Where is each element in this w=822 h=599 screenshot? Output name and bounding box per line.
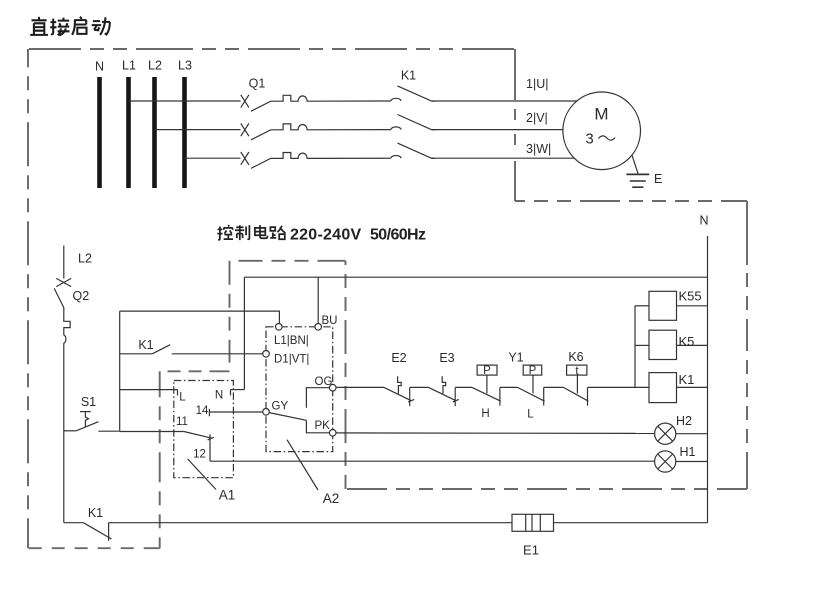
svg-text:N: N — [699, 214, 708, 228]
svg-text:K6: K6 — [568, 350, 583, 364]
contact E3 (thermal NC) — [429, 351, 459, 406]
svg-text:3: 3 — [585, 131, 593, 148]
pushbutton S1 — [64, 395, 120, 431]
breaker Q2 — [54, 278, 89, 430]
A1 terminal L — [178, 390, 187, 404]
relay coil K5 — [635, 330, 708, 359]
wire riser A1-N to top rail — [243, 277, 245, 389]
A2 terminal D1|VT| — [263, 351, 310, 366]
wire E1 to N rail — [554, 522, 708, 524]
svg-text:P: P — [529, 365, 537, 377]
svg-text:E1: E1 — [523, 543, 539, 558]
heater element E1 — [512, 514, 554, 557]
A1 terminal N — [215, 390, 245, 402]
wire N rail vertical — [707, 236, 709, 523]
svg-text:L1: L1 — [122, 59, 136, 73]
wire Y1L-K6 — [544, 386, 564, 388]
node L2 (control feed) — [64, 246, 92, 279]
svg-text:K1: K1 — [88, 506, 103, 520]
contact E2 (thermal NC) — [384, 351, 414, 406]
A1 contact 11-12 — [176, 416, 214, 461]
svg-text:S1: S1 — [81, 395, 96, 409]
ground E — [626, 155, 662, 188]
A2 terminal OG — [315, 376, 337, 391]
svg-text:H: H — [481, 408, 489, 420]
svg-text:Q1: Q1 — [249, 77, 266, 91]
svg-text:11: 11 — [176, 416, 188, 428]
contact K1 (heater circuit) — [64, 506, 112, 541]
svg-text:K55: K55 — [679, 289, 702, 304]
wire coil bus vertical — [634, 306, 636, 388]
wire L1 to Q1 pole1 — [129, 100, 241, 102]
svg-text:14: 14 — [196, 405, 209, 417]
svg-text:E3: E3 — [439, 351, 454, 365]
busbar L2 — [148, 59, 162, 189]
circuit breaker Q1 pole3 — [241, 152, 391, 168]
A2 terminal PK — [315, 420, 337, 436]
A2 internal changeover contact — [269, 388, 329, 433]
label A1 with leader — [188, 459, 236, 503]
title 直接启动 — [30, 17, 110, 36]
wire BU riser — [317, 277, 319, 323]
svg-text:N: N — [95, 60, 104, 74]
wire E3-Y1H — [455, 386, 472, 388]
svg-text:L: L — [527, 409, 534, 421]
A2 terminal L1|BN| — [274, 324, 309, 348]
relay coil K1 — [649, 372, 708, 403]
wire A1 12 to lamp H1 — [210, 460, 655, 462]
contact K1 (aux, seal-in) — [120, 338, 263, 354]
label A2 with leader — [287, 440, 339, 506]
contact Y1 H (pressure NC) — [472, 365, 501, 420]
contact Y1 L (pressure NC) — [518, 365, 545, 421]
svg-text:Q2: Q2 — [73, 289, 90, 303]
svg-text:E: E — [654, 172, 662, 186]
contactor K1 pole3 — [391, 143, 574, 158]
wire OG to contact row — [336, 386, 384, 388]
svg-text:1|U|: 1|U| — [526, 77, 548, 91]
svg-text:M: M — [594, 105, 608, 124]
svg-text:K1: K1 — [401, 69, 416, 83]
svg-text:P: P — [483, 365, 491, 377]
wire K1 to E1 — [109, 522, 512, 524]
svg-text:GY: GY — [272, 401, 289, 413]
busbar L1 — [122, 59, 136, 189]
svg-text:H1: H1 — [680, 445, 696, 459]
A2 terminal GY — [263, 401, 289, 416]
wire bus to A1 L terminal — [120, 389, 178, 391]
svg-text:3|W|: 3|W| — [526, 142, 551, 156]
lamp H2 — [655, 414, 708, 444]
svg-text:K1: K1 — [679, 372, 695, 387]
lamp H1 — [655, 445, 708, 472]
A1 terminal 14 to GY — [196, 405, 263, 417]
svg-text:220-240V: 220-240V — [290, 227, 361, 244]
contactor K1 pole1 — [391, 86, 577, 101]
contactor K1 pole2 — [391, 115, 563, 130]
busbar L3 — [178, 59, 192, 189]
svg-text:2|V|: 2|V| — [526, 111, 548, 125]
enclosure dashed boundary — [28, 49, 747, 548]
svg-text:K5: K5 — [679, 334, 695, 349]
svg-text:12: 12 — [193, 449, 206, 461]
svg-text:OG: OG — [315, 376, 333, 388]
svg-text:K1: K1 — [138, 338, 153, 352]
svg-text:D1|VT|: D1|VT| — [274, 354, 309, 366]
module A1 outline — [174, 381, 234, 478]
wire E2-E3 — [410, 386, 429, 388]
module A2 outline — [266, 327, 333, 452]
wire Y1H-Y1L — [500, 386, 518, 388]
wire L3 to Q1 pole3 — [185, 157, 241, 159]
wire K6 to relay K1 — [588, 386, 650, 388]
svg-text:L2: L2 — [78, 252, 92, 266]
circuit breaker Q1 pole1 — [241, 95, 391, 111]
svg-text:L: L — [179, 391, 186, 403]
wire S1 bus vertical — [119, 311, 121, 431]
svg-text:E2: E2 — [391, 351, 406, 365]
wire control top rail to N — [244, 276, 707, 278]
svg-text:BU: BU — [322, 315, 338, 327]
svg-text:H2: H2 — [676, 414, 692, 428]
svg-text:Y1: Y1 — [508, 351, 523, 365]
control circuit caption 控制电路 220-240V 50/60Hz — [217, 225, 426, 244]
svg-text:A2: A2 — [323, 491, 340, 506]
svg-text:PK: PK — [315, 420, 331, 432]
svg-text:A1: A1 — [219, 488, 236, 503]
svg-text:L1|BN|: L1|BN| — [274, 335, 309, 347]
svg-text:N: N — [215, 390, 223, 402]
svg-text:L3: L3 — [178, 59, 192, 73]
A2 terminal BU — [315, 315, 338, 330]
circuit breaker Q1 pole2 — [241, 123, 391, 139]
wire bus to L1|BN| riser — [120, 311, 280, 323]
svg-text:L2: L2 — [148, 59, 162, 73]
busbar N — [95, 60, 104, 189]
wire L2 to Q1 pole2 — [155, 129, 241, 131]
relay coil K55 — [635, 289, 708, 321]
motor M 3~ — [563, 92, 641, 170]
svg-text:50/60Hz: 50/60Hz — [370, 227, 426, 244]
wire S1 to A1 terminal 11 — [120, 431, 184, 433]
wire PK to lamp H2 — [336, 432, 655, 435]
contact K6 (timer NC) — [563, 350, 588, 406]
wire L2 line down to K1 heater contact — [63, 431, 65, 523]
